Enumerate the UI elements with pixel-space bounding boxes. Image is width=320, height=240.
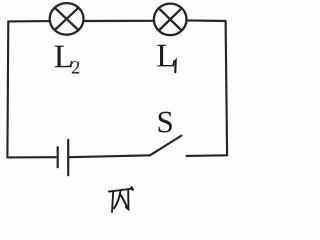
wire bottom-middle (battery to switch) [69, 155, 150, 157]
wire bottom-left (left corner to battery) [7, 156, 55, 158]
label L2 [55, 46, 79, 74]
battery B1 short plate (negative) [57, 147, 59, 167]
wire top-left horizontal [8, 20, 50, 22]
lamp L1 [154, 4, 187, 36]
lamp L2 [50, 3, 84, 35]
label L1 [157, 45, 175, 73]
wire top-middle horizontal [83, 20, 154, 22]
caption 丙 [109, 187, 133, 212]
label S [159, 112, 172, 133]
switch S right contact wire [187, 154, 228, 157]
battery B1 long plate (positive) [67, 140, 69, 175]
wire right vertical [226, 21, 228, 155]
wire top-right horizontal [186, 19, 225, 22]
wire left vertical [6, 21, 9, 157]
switch S blade [150, 136, 181, 156]
